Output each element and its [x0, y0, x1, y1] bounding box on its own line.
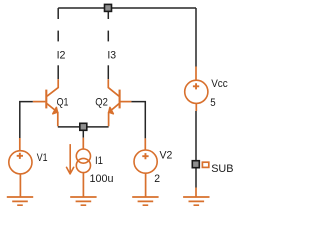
wire emitter bus [58, 126, 109, 128]
Q1 emitter arrow [53, 107, 58, 113]
wire I2 branch segment B [57, 31, 59, 42]
svg-text:I1: I1 [95, 155, 103, 167]
transistor Q1 [33, 79, 58, 126]
V2 bottom lead [145, 173, 147, 197]
svg-text:I2: I2 [57, 49, 66, 61]
I1 direction arrow shaft [69, 144, 71, 174]
transistor Q2 [108, 79, 131, 126]
ground under I1 [70, 197, 96, 205]
wire I2 branch segment C [57, 65, 59, 79]
Q1 collector lead [47, 79, 58, 96]
ground under V2 [132, 197, 158, 205]
Q1 base bar [45, 90, 47, 109]
I1 top lead [82, 138, 84, 150]
V2 body [134, 150, 157, 173]
Q2 base pin [120, 101, 131, 103]
V1 body [9, 151, 32, 174]
wire SUB node to ground [195, 168, 197, 187]
Vcc top lead [195, 67, 197, 81]
node SUB junction [192, 161, 199, 168]
wire top rail [58, 7, 196, 9]
Vcc plus sign [193, 83, 199, 89]
node emitter junction [80, 123, 87, 130]
wire I3 branch segment B [107, 31, 109, 42]
V1 top lead [19, 138, 21, 151]
svg-text:2: 2 [154, 173, 160, 185]
I1 direction arrow head [67, 167, 74, 174]
svg-text:5: 5 [210, 97, 215, 109]
Q1 base pin [33, 101, 46, 103]
voltage source V1 [9, 138, 32, 197]
Q2 collector lead [108, 79, 119, 96]
node SUB flag [202, 162, 208, 167]
I1 body upper circle [76, 149, 90, 163]
Q1 emitter lead [47, 104, 58, 127]
I1 body lower circle [76, 158, 90, 172]
wire right drop to Vcc [195, 8, 197, 67]
node top junction [105, 4, 112, 11]
current source I1 [70, 138, 90, 197]
svg-text:Q2: Q2 [95, 97, 108, 109]
svg-text:I3: I3 [107, 49, 116, 61]
I1 bottom lead [82, 172, 84, 197]
wire I3 branch segment A [107, 12, 109, 19]
svg-text:V2: V2 [160, 149, 173, 161]
V1 bottom lead [19, 174, 21, 197]
wire node to I1 [82, 131, 84, 138]
wire I3 branch segment C [107, 65, 109, 79]
svg-text:V1: V1 [37, 152, 48, 164]
svg-text:Vcc: Vcc [211, 78, 228, 90]
V1 plus sign [17, 153, 23, 159]
ground under V1 [7, 197, 33, 205]
Q2 emitter arrow [109, 107, 114, 113]
wire Vcc to SUB node [195, 111, 197, 160]
ground SUB [183, 197, 209, 205]
Vcc bottom lead [195, 103, 197, 111]
voltage source V2 [134, 138, 157, 197]
wire SUB ground stem [195, 188, 197, 198]
Vcc body [185, 80, 208, 103]
svg-text:100u: 100u [90, 173, 114, 185]
voltage source Vcc [185, 67, 208, 112]
wire Q1 base to V1 [20, 102, 33, 138]
svg-text:SUB: SUB [211, 163, 233, 175]
Q2 emitter lead [109, 104, 119, 127]
Q2 base bar [119, 90, 121, 109]
svg-text:Q1: Q1 [57, 97, 69, 109]
wire Q2 base to V2 [131, 102, 145, 139]
wire I2 branch segment A [57, 8, 59, 19]
V2 top lead [144, 138, 146, 150]
V2 plus sign [142, 153, 148, 159]
